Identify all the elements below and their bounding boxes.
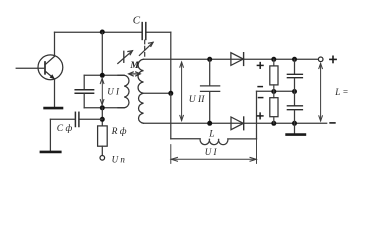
voltage arrow UI tank xyxy=(100,78,104,104)
transistor VT1 xyxy=(38,55,63,80)
node cap1 mid xyxy=(292,89,297,94)
wire center tap drop xyxy=(170,93,172,139)
resistor Rf xyxy=(98,126,108,146)
capacitor across secondary xyxy=(201,59,220,123)
node collector junction xyxy=(100,30,105,35)
svg-text:U п: U п xyxy=(112,154,126,164)
node center tap xyxy=(168,91,173,96)
wire Rf to terminal xyxy=(101,146,103,155)
inductor L choke xyxy=(171,139,257,145)
wire secondary top rail xyxy=(144,58,319,60)
node cross cap bottom xyxy=(207,121,212,126)
dimension arrow UI bottom xyxy=(171,157,256,161)
node rect2 bottom xyxy=(271,121,276,126)
svg-text:U I: U I xyxy=(107,87,120,97)
inductor L2 secondary xyxy=(138,59,143,123)
variable arrow left xyxy=(118,51,133,64)
inductor L1 primary xyxy=(118,75,129,108)
svg-text:C ф: C ф xyxy=(57,123,73,134)
wire base stub xyxy=(16,67,45,69)
wire center tap xyxy=(144,92,171,94)
terminal plus output xyxy=(318,57,323,62)
node rect1 mid xyxy=(271,89,276,94)
svg-text:L: L xyxy=(208,130,214,140)
voltage arrow UII xyxy=(180,62,184,121)
diode VD1 xyxy=(231,53,244,66)
dimension arrow output xyxy=(319,63,323,121)
terminal Un xyxy=(100,156,105,161)
node Cf tap xyxy=(100,117,105,122)
wire collector drop xyxy=(54,32,56,55)
wire top rail right segment xyxy=(146,31,170,33)
label plus R2 xyxy=(257,113,263,119)
capacitor Cf xyxy=(50,112,102,126)
node cross cap top xyxy=(207,57,212,62)
variable arrow right xyxy=(139,42,153,55)
ground under Cf xyxy=(41,151,60,154)
node rect1 top xyxy=(271,57,276,62)
svg-text:U I: U I xyxy=(205,147,218,157)
svg-text:U II: U II xyxy=(189,95,205,105)
wire secondary bottom rail xyxy=(144,122,327,124)
coupling arrow M xyxy=(129,72,141,76)
resistor R1 xyxy=(270,59,278,91)
capacitor C1 tank xyxy=(75,75,93,108)
dimension extension right xyxy=(256,139,258,164)
label minus R1 xyxy=(258,86,262,88)
wire tank to Cf tap xyxy=(101,108,103,126)
capacitor C2 filter xyxy=(287,92,302,124)
svg-text:L =: L = xyxy=(334,87,348,97)
node tank bottom xyxy=(100,105,105,110)
svg-text:C: C xyxy=(133,15,141,27)
capacitor C xyxy=(142,23,146,40)
label minus output xyxy=(330,122,335,124)
node cap1 top xyxy=(292,57,297,62)
node cap2 bottom xyxy=(292,121,297,126)
tank bottom rail xyxy=(84,107,124,109)
resistor R2 xyxy=(270,92,278,124)
wire choke riser xyxy=(256,91,258,139)
wire emitter drop xyxy=(54,80,56,107)
label minus R2 xyxy=(259,97,263,99)
label plus output xyxy=(330,56,336,62)
svg-text:R ф: R ф xyxy=(111,126,127,137)
diode VD2 xyxy=(231,117,244,130)
node tank top xyxy=(100,73,105,78)
dashed link from C xyxy=(144,40,146,56)
ground under transistor xyxy=(45,107,62,110)
wire top rail left segment xyxy=(55,31,142,33)
wire collector junction to tank xyxy=(101,32,103,75)
wire C right drop xyxy=(170,32,172,93)
capacitor C1 filter xyxy=(287,59,302,91)
dimension extension left xyxy=(170,145,172,164)
wire middle rail xyxy=(257,90,295,92)
ground output xyxy=(287,123,305,134)
wire Cf to ground xyxy=(49,119,51,151)
label plus R1 xyxy=(257,63,263,69)
tank top rail xyxy=(84,74,124,76)
